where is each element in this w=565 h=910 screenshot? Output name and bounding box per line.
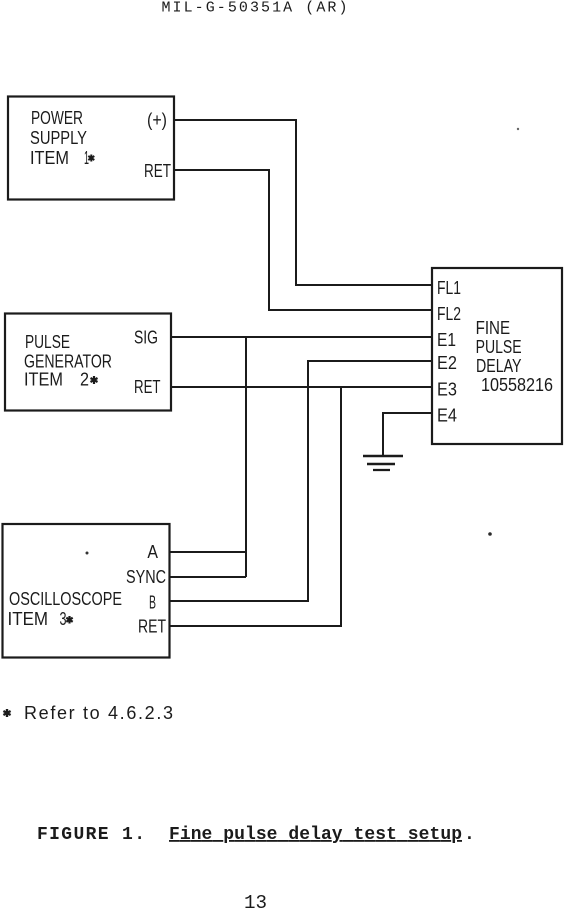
svg-text:FINE: FINE <box>476 318 511 338</box>
oscilloscope box (ITEM 3) <box>3 524 170 658</box>
svg-text:E4: E4 <box>437 406 457 426</box>
svg-text:3: 3 <box>60 609 67 629</box>
svg-text:RET: RET <box>134 377 161 397</box>
pin SYNC of oscilloscope <box>126 567 166 587</box>
wire (+) to FL1 <box>174 120 432 285</box>
power supply label <box>30 108 89 168</box>
svg-text:SYNC: SYNC <box>126 567 166 587</box>
svg-text:POWER: POWER <box>31 108 83 128</box>
svg-text:PULSE: PULSE <box>25 332 70 352</box>
wire RET(power supply) to FL2 <box>174 170 432 310</box>
svg-text:E3: E3 <box>437 380 457 400</box>
svg-text:GENERATOR: GENERATOR <box>24 352 112 372</box>
power supply box (ITEM 1) <box>8 97 174 200</box>
svg-text:A: A <box>147 542 158 562</box>
svg-text:DELAY: DELAY <box>476 356 522 376</box>
pin SIG of pulse generator <box>134 328 158 348</box>
svg-text:FL2: FL2 <box>437 304 461 324</box>
footnote asterisk star <box>3 709 10 717</box>
pin (+) of power supply <box>147 110 167 130</box>
wire E4 to ground <box>383 413 432 456</box>
fine pulse delay label <box>476 318 553 395</box>
svg-text:PULSE: PULSE <box>476 337 522 357</box>
pin E4 <box>437 406 457 426</box>
ground symbol <box>363 456 403 470</box>
stray speck right middle <box>488 532 492 536</box>
svg-text:B: B <box>149 593 156 613</box>
pin FL1 <box>437 278 461 298</box>
svg-text:(+): (+) <box>147 110 167 130</box>
svg-text:MIL-G-50351A (AR): MIL-G-50351A (AR) <box>162 0 348 17</box>
svg-text:Fine pulse delay test setup: Fine pulse delay test setup <box>169 825 462 845</box>
stray dot inside oscilloscope box <box>86 552 89 555</box>
svg-text:FIGURE 1.: FIGURE 1. <box>37 825 145 845</box>
fine pulse delay box 10558216 <box>432 268 562 444</box>
pin E3 <box>437 380 457 400</box>
pin RET of power supply <box>144 161 171 181</box>
svg-text:SUPPLY: SUPPLY <box>30 128 87 148</box>
asterisk star after ITEM 2 <box>91 376 98 384</box>
svg-text:FL1: FL1 <box>437 278 461 298</box>
wire RET(pulse generator) to E3 <box>171 386 432 388</box>
pin E2 <box>437 353 457 373</box>
footnote Refer to 4.6.2.3 <box>24 703 173 723</box>
pin E1 <box>437 330 456 350</box>
stray speck top right <box>517 128 519 130</box>
page number 13 <box>244 892 267 910</box>
pin RET of oscilloscope <box>138 617 166 637</box>
pin B of oscilloscope <box>149 593 156 613</box>
svg-text:RET: RET <box>144 161 171 181</box>
wire branch from SIG line down to SYNC <box>245 337 247 577</box>
pulse generator box (ITEM 2) <box>5 314 171 411</box>
header document number MIL-G-50351A (AR) <box>162 0 348 17</box>
svg-text:ITEM: ITEM <box>8 609 49 629</box>
svg-text:.: . <box>464 825 475 845</box>
svg-text:2: 2 <box>80 370 89 390</box>
pin RET of pulse generator <box>134 377 161 397</box>
svg-text:13: 13 <box>244 892 267 910</box>
pin FL2 <box>437 304 461 324</box>
figure caption FIGURE 1 <box>37 825 475 845</box>
svg-text:E2: E2 <box>437 353 457 373</box>
wire SYNC to SIG branch <box>170 576 247 578</box>
oscilloscope label <box>8 589 123 629</box>
svg-text:E1: E1 <box>437 330 456 350</box>
svg-text:OSCILLOSCOPE: OSCILLOSCOPE <box>9 589 122 609</box>
svg-text:1: 1 <box>84 148 89 168</box>
wire RET(oscilloscope) up to E3 net <box>170 387 342 626</box>
svg-text:10558216: 10558216 <box>481 375 553 395</box>
wire B to E2 <box>170 361 433 601</box>
wire A to SIG branch <box>170 551 247 553</box>
asterisk star after ITEM 1 <box>88 155 94 162</box>
asterisk star after ITEM 3 <box>66 616 72 624</box>
svg-text:ITEM: ITEM <box>24 370 63 390</box>
svg-text:Refer to 4.6.2.3: Refer to 4.6.2.3 <box>24 703 173 723</box>
svg-text:RET: RET <box>138 617 166 637</box>
svg-text:SIG: SIG <box>134 328 158 348</box>
svg-text:ITEM: ITEM <box>30 148 69 168</box>
pulse generator label <box>24 332 112 390</box>
wire SIG to E1 <box>171 336 432 338</box>
pin A of oscilloscope <box>147 542 158 562</box>
